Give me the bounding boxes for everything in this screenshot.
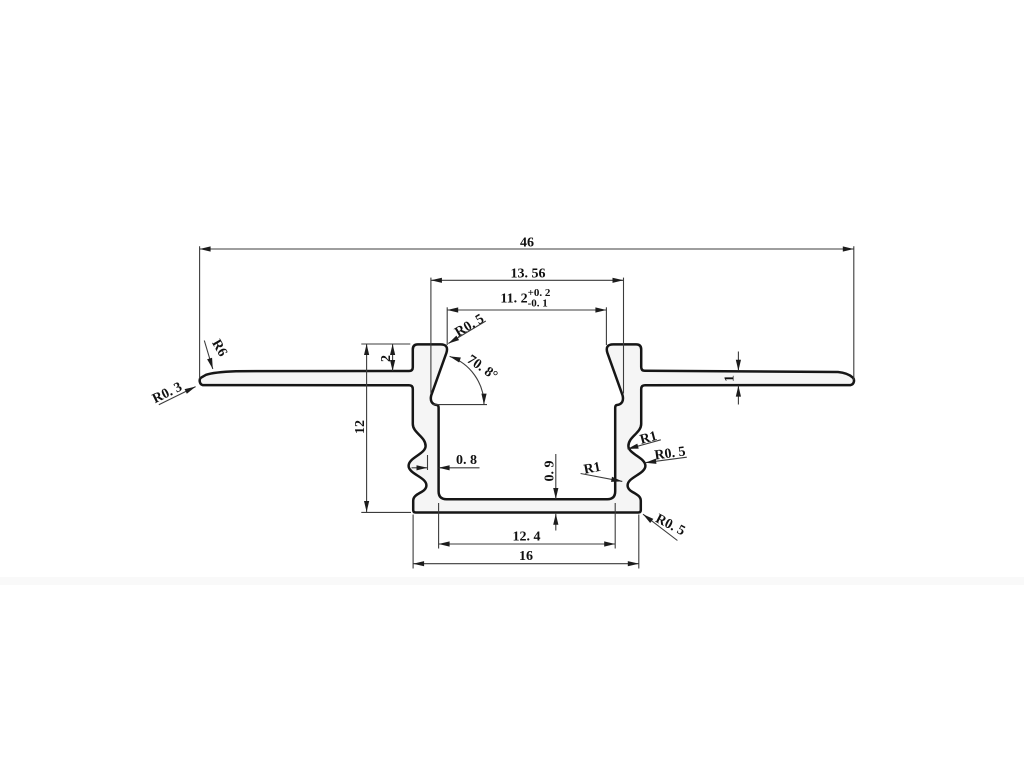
faint scan band [0,577,1024,585]
dimension 2 [392,344,394,371]
svg-text:R1: R1 [582,460,602,478]
svg-text:70. 8°: 70. 8° [464,352,500,384]
svg-text:-0. 1: -0. 1 [528,297,548,309]
profile outline (aluminum cross-section) [200,344,854,512]
svg-text:12. 4: 12. 4 [513,529,541,544]
svg-text:1: 1 [723,375,738,382]
dimension 46 [200,246,854,380]
dimension 1 (wing thickness) [737,352,739,405]
svg-text:0. 8: 0. 8 [456,453,477,468]
dimension 11.2 +0.2/-0.1 [447,307,606,345]
leader R0.5 (bottom corner) [643,514,677,540]
svg-text:R0. 5: R0. 5 [654,444,687,463]
dimension 0.8 (wall thickness) [412,455,480,470]
svg-text:R6: R6 [208,337,230,359]
dimension 12.4 [439,503,616,549]
svg-text:16: 16 [519,549,533,564]
svg-text:R1: R1 [638,429,658,448]
svg-text:R0. 5: R0. 5 [452,312,486,341]
leader R1 (upper rib notch) [627,440,660,449]
leader R0.3 (wing tip) [159,387,196,405]
svg-text:2: 2 [379,355,394,362]
leader R6 (wing top curve) [204,341,213,370]
svg-text:13. 56: 13. 56 [511,267,546,282]
dimension 0.9 (bottom thickness) [555,454,557,531]
leader R1 (lower rib notch) [581,474,623,482]
angle dimension 70.8 [433,356,487,404]
svg-text:R0. 3: R0. 3 [150,380,185,407]
dimension 13.56 [431,278,624,394]
svg-text:0. 9: 0. 9 [543,461,558,482]
svg-text:11. 2: 11. 2 [500,292,527,307]
dimension 12 [361,344,411,512]
leader R0.5 (rib bulge) [645,457,687,463]
svg-text:12: 12 [353,420,368,434]
leader R0.5 (top chamfer corner) [448,321,486,344]
dimension 16 [413,515,639,569]
svg-text:46: 46 [520,235,534,250]
